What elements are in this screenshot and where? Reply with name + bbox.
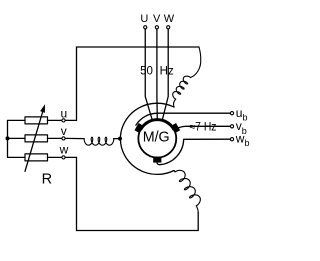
- terminal circle wb: [230, 138, 233, 141]
- terminal circle U: [144, 26, 147, 29]
- terminal circle ub: [230, 112, 233, 115]
- wire brush UL to ub terminal: [136, 113, 230, 125]
- brush bottom: [153, 157, 161, 163]
- svg-text:wb: wb: [235, 131, 250, 148]
- inductor left (v phase): [84, 137, 114, 145]
- svg-text:V: V: [153, 13, 161, 25]
- rotor circle M/G: [138, 120, 176, 158]
- svg-text:w: w: [59, 142, 69, 156]
- wire top lead into coil: [191, 47, 201, 78]
- rheostat arrow head: [40, 104, 45, 113]
- terminal circle V: [155, 26, 158, 29]
- svg-text:50: 50: [140, 65, 153, 77]
- wire res2 to v: [48, 137, 62, 139]
- wire W line: [162, 29, 168, 120]
- svg-text:Hz: Hz: [160, 65, 174, 77]
- brush upper-right: [171, 123, 180, 133]
- svg-text:M/G: M/G: [143, 129, 170, 146]
- svg-text:v: v: [61, 124, 67, 138]
- wire brush bottom to wb terminal: [157, 139, 230, 165]
- wire bottom bus: [77, 157, 199, 230]
- wire top bus: [77, 47, 200, 120]
- wire rheostat mid: [8, 137, 26, 139]
- junction dot ring-left: [118, 137, 122, 141]
- terminal circle v: [62, 137, 65, 140]
- wire coil to ring dot: [114, 138, 120, 140]
- rheostat arrow shaft: [25, 112, 43, 171]
- resistor R3: [25, 154, 48, 161]
- terminal circle W: [167, 26, 170, 29]
- terminal circle w: [62, 156, 65, 159]
- wire v to coil: [65, 137, 84, 139]
- inductor top-right (u phase): [173, 76, 191, 99]
- junction dot rheostat star: [6, 136, 10, 140]
- svg-text:u: u: [60, 107, 67, 121]
- wire res1 to u: [48, 119, 62, 121]
- wire brush UR to vb terminal: [179, 126, 230, 127]
- wire V line: [156, 29, 158, 120]
- wire w to box: [65, 156, 76, 158]
- thick top arc between brushes: [141, 120, 174, 129]
- svg-text:W: W: [164, 13, 175, 25]
- resistor R1: [25, 117, 48, 124]
- wire bottom coil exit: [196, 206, 198, 213]
- svg-text:≈7 Hz: ≈7 Hz: [190, 122, 217, 134]
- wire top coil to ring: [173, 99, 175, 107]
- svg-text:U: U: [140, 13, 148, 25]
- wire res3 to w: [48, 156, 62, 158]
- stator ring arc: [120, 103, 175, 174]
- brush upper-left: [135, 123, 144, 133]
- inductor bottom-right (w phase): [175, 170, 200, 205]
- terminal circle vb: [230, 125, 233, 128]
- wire U line: [145, 29, 152, 120]
- wire u to box: [65, 119, 76, 121]
- terminal circle u: [62, 119, 65, 122]
- svg-text:R: R: [42, 172, 52, 188]
- resistor R2: [25, 135, 48, 142]
- wire rheostat star bus: [8, 120, 26, 157]
